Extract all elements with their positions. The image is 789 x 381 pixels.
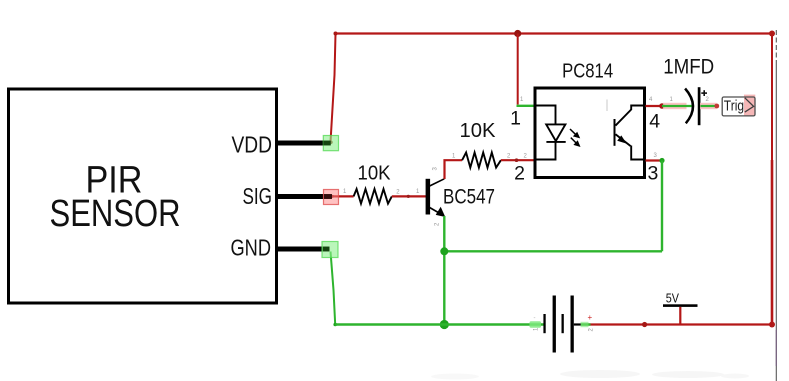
pin GND xyxy=(231,235,330,261)
pin SIG xyxy=(243,183,332,209)
svg-text:SENSOR: SENSOR xyxy=(50,193,181,235)
svg-text:PC814: PC814 xyxy=(562,60,613,83)
wire pin1 green stub xyxy=(517,105,535,107)
svg-text:BC547: BC547 xyxy=(443,186,495,209)
wire GND drop xyxy=(331,252,336,325)
svg-text:SIG: SIG xyxy=(243,183,273,209)
pin VDD xyxy=(232,132,331,158)
svg-text:+: + xyxy=(588,313,593,322)
svg-text:-: - xyxy=(534,316,536,322)
node SIG wire tip xyxy=(331,195,334,198)
node emitter junction xyxy=(440,247,448,255)
faint smudges bottom xyxy=(431,370,749,380)
node top-right corner xyxy=(769,31,775,37)
svg-text:3: 3 xyxy=(648,163,659,185)
wire emitter bus xyxy=(444,250,662,252)
node ground junction xyxy=(440,320,449,329)
wire battery + to right rail xyxy=(582,323,773,325)
optocoupler U1 PC814 xyxy=(510,60,660,185)
resistor R2 10K xyxy=(452,120,528,168)
wire R2 to opto pin2 xyxy=(501,159,534,161)
pad SIG xyxy=(324,190,339,205)
wire pin3 stub xyxy=(646,159,663,161)
node VDD wire tip xyxy=(329,141,332,144)
node bottom-right corner xyxy=(769,322,775,328)
highlighted wire segment xyxy=(663,103,687,109)
connector Trig xyxy=(722,95,755,116)
frame grey line right xyxy=(775,30,777,62)
wire collector riser to R2 xyxy=(445,160,463,179)
wire rail to opto pin1 xyxy=(517,34,519,105)
power flag 5V xyxy=(663,291,698,325)
PIR sensor module U2 xyxy=(9,89,277,303)
svg-text:5V: 5V xyxy=(666,291,679,306)
wire green to cap xyxy=(662,105,693,107)
node pin3 green xyxy=(659,158,664,163)
node pin4 junction xyxy=(659,103,665,109)
transistor Q1 BC547 xyxy=(426,167,495,227)
node gnd bend xyxy=(333,323,337,327)
wire emitter down xyxy=(443,216,445,325)
wire VDD riser xyxy=(331,34,336,142)
wire cap to Trig xyxy=(700,103,717,109)
wire SIG to R1 xyxy=(331,195,354,197)
wire R1 to base xyxy=(392,195,427,197)
capacitor C1 1MFD xyxy=(663,55,714,126)
wire pin4 to cap xyxy=(646,105,663,107)
resistor R1 10K xyxy=(343,163,420,204)
node top rail junction xyxy=(514,30,521,37)
node base wire dot xyxy=(407,195,410,198)
node pin2 wire dot xyxy=(515,158,519,162)
wire right vertical rail xyxy=(771,34,773,325)
svg-text:2: 2 xyxy=(514,163,525,185)
svg-text:GND: GND xyxy=(231,235,272,261)
faint artifact tick inside U1 xyxy=(606,100,608,112)
svg-text:4: 4 xyxy=(649,111,660,133)
svg-text:1MFD: 1MFD xyxy=(663,55,714,79)
node 5v junction xyxy=(642,322,647,327)
wire top +5V rail xyxy=(336,32,773,34)
svg-text:10K: 10K xyxy=(358,163,392,185)
node top-left bend xyxy=(334,32,338,36)
svg-text:1: 1 xyxy=(510,107,521,129)
wire green nub battery positive xyxy=(581,323,591,325)
LED inside U1 xyxy=(535,106,581,160)
highlighted wire nub at battery xyxy=(530,321,542,328)
battery BT1 xyxy=(534,296,595,353)
wire pin3 down xyxy=(661,161,663,252)
wire ground bus xyxy=(335,323,544,325)
pad GND xyxy=(322,242,338,258)
phototransistor inside U1 xyxy=(614,106,645,160)
node trig dot xyxy=(714,104,719,109)
svg-text:Trig: Trig xyxy=(724,98,744,114)
pad VDD xyxy=(323,136,338,151)
svg-text:VDD: VDD xyxy=(232,132,273,158)
svg-text:10K: 10K xyxy=(460,120,497,142)
